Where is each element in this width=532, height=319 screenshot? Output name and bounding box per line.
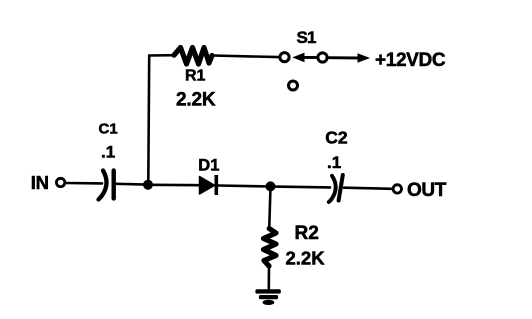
svg-text:S1: S1 bbox=[297, 28, 317, 47]
svg-text:C1: C1 bbox=[99, 121, 118, 138]
svg-text:D1: D1 bbox=[198, 157, 219, 175]
svg-text:R1: R1 bbox=[185, 68, 206, 85]
svg-text:2.2K: 2.2K bbox=[286, 248, 326, 269]
svg-text:+12VDC: +12VDC bbox=[375, 50, 446, 71]
svg-text:C2: C2 bbox=[325, 128, 348, 148]
svg-text:.1: .1 bbox=[327, 153, 341, 172]
svg-text:2.2K: 2.2K bbox=[176, 90, 216, 111]
svg-text:OUT: OUT bbox=[407, 180, 447, 201]
svg-text:IN: IN bbox=[31, 172, 49, 193]
svg-text:R2: R2 bbox=[295, 223, 319, 244]
svg-text:.1: .1 bbox=[101, 143, 115, 162]
